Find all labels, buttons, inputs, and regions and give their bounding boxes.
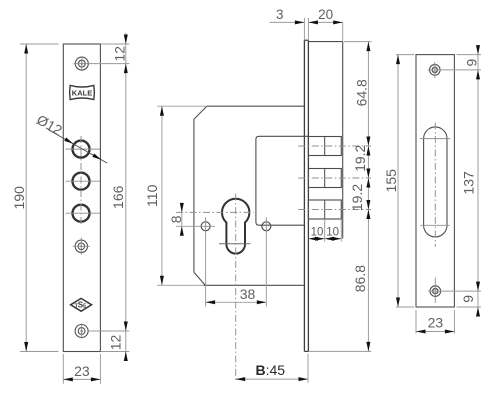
hole 1 (diameter 12) xyxy=(66,141,101,158)
svg-text:166: 166 xyxy=(110,185,126,209)
fixing hole right xyxy=(262,217,271,235)
holes vertical centerline xyxy=(80,136,82,226)
svg-text:10: 10 xyxy=(311,227,324,239)
svg-text:10: 10 xyxy=(326,227,339,239)
dimension 155 xyxy=(383,55,414,307)
dimension 110 xyxy=(144,106,207,285)
svg-text:23: 23 xyxy=(74,363,90,379)
hole extension lines to dim 38 xyxy=(206,235,267,307)
svg-text:KALE: KALE xyxy=(72,89,92,98)
dimension 20 case depth xyxy=(304,7,342,42)
dimension 190 xyxy=(11,44,59,352)
svg-text:B:45: B:45 xyxy=(256,362,286,378)
dimension text 9 bottom xyxy=(460,295,476,303)
svg-text:86.8: 86.8 xyxy=(352,265,368,292)
lock case top edge xyxy=(308,41,342,43)
dimension 3 faceplate thickness xyxy=(270,7,305,25)
slot centerlines xyxy=(420,123,450,248)
diameter label Ø12 xyxy=(34,111,107,163)
fixing hole left xyxy=(196,217,215,235)
dimension 12 top / 166 / 12 bottom extension lines xyxy=(89,33,130,361)
lock faceplate side view xyxy=(304,40,308,351)
dimension text 64.8 xyxy=(354,79,370,106)
svg-text:110: 110 xyxy=(144,184,160,207)
svg-text:9: 9 xyxy=(464,58,480,66)
svg-text:8: 8 xyxy=(168,215,184,223)
svg-text:19.2: 19.2 xyxy=(352,144,368,171)
left plate top screw hole xyxy=(73,56,90,71)
dimension text 19.2 upper xyxy=(352,144,368,171)
svg-text:38: 38 xyxy=(240,286,256,302)
svg-text:155: 155 xyxy=(383,169,399,193)
svg-text:190: 190 xyxy=(11,186,27,210)
dimension text 12 top xyxy=(111,46,127,62)
left plate bottom screw hole xyxy=(75,323,88,338)
euro cylinder profile xyxy=(219,199,250,254)
dimension arrows 12/166/12 xyxy=(124,35,128,362)
cylinder housing inner outline xyxy=(256,136,309,225)
dimension 23 strike plate xyxy=(416,310,454,334)
hole 2 (diameter 12) xyxy=(66,173,101,190)
left plate middle screw hole xyxy=(73,238,90,255)
svg-text:137: 137 xyxy=(460,171,476,195)
dimension text 12 bottom xyxy=(107,335,123,351)
TSE logo xyxy=(71,298,92,311)
dimension text 86.8 xyxy=(352,265,368,292)
dimension 23 left plate xyxy=(63,354,100,384)
latch bolts (3) xyxy=(298,137,371,220)
dimension B:45 xyxy=(236,354,308,383)
svg-text:19.2: 19.2 xyxy=(349,184,365,211)
lock case bottom edge xyxy=(203,284,304,286)
dimension text 19.2 lower xyxy=(349,184,365,211)
dimension 8 xyxy=(168,203,196,236)
dimension 10|10 xyxy=(308,219,341,242)
hole 3 (diameter 12) xyxy=(66,205,101,222)
dimension text 137 xyxy=(460,171,476,195)
svg-text:12: 12 xyxy=(107,335,123,351)
svg-text:12: 12 xyxy=(111,46,127,62)
svg-text:23: 23 xyxy=(428,315,444,331)
svg-text:Ø12: Ø12 xyxy=(34,111,65,138)
cylinder centerlines xyxy=(176,194,254,383)
strike plate outline xyxy=(416,55,454,307)
right chain dimension line 64.8/19.2/19.2/86.8 xyxy=(308,42,371,352)
dimension 9 top / 137 / 9 bottom xyxy=(457,45,481,317)
strike plate bottom screw hole xyxy=(428,278,481,304)
dimension 38 xyxy=(206,286,267,304)
svg-text:3: 3 xyxy=(276,7,284,22)
dimension text 9 top xyxy=(464,58,480,66)
KALE logo xyxy=(70,85,95,99)
svg-text:9: 9 xyxy=(460,295,476,303)
svg-text:64.8: 64.8 xyxy=(354,79,370,106)
dimension text 166 xyxy=(110,185,126,209)
strike plate top screw hole xyxy=(428,62,482,78)
lock case right edge xyxy=(342,42,344,239)
svg-text:20: 20 xyxy=(318,7,333,22)
lock case upper-left outline xyxy=(194,106,305,285)
strike plate slot xyxy=(424,127,447,237)
left faceplate outline xyxy=(63,44,100,352)
